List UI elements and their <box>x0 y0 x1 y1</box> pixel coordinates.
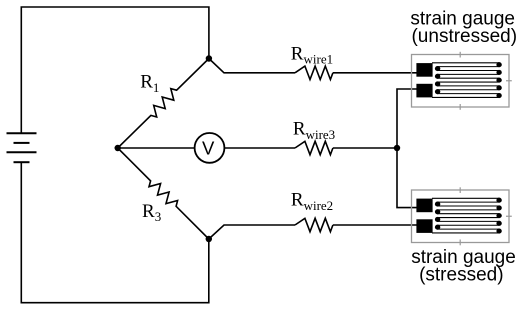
wire: middle junction down to stressed gauge pad 1 <box>397 148 418 208</box>
gauge serpentine grid lines (unstressed) <box>432 63 500 98</box>
gauge terminal pad 1 (unstressed) <box>416 63 432 77</box>
gauge alignment tick top (unstressed) <box>459 52 461 58</box>
gauge left-end turn loops (unstressed) <box>435 66 440 94</box>
battery B1 plate long <box>7 151 37 153</box>
strain gauge U1 (unstressed) <box>412 52 512 110</box>
svg-text:(stressed): (stressed) <box>419 264 503 285</box>
gauge terminal pad 2 (stressed) <box>416 219 432 233</box>
node: bridge left junction <box>115 145 121 151</box>
wire: middle junction up to unstressed gauge pad 2 <box>397 89 418 148</box>
wire: top node to Rwire1 <box>209 59 295 73</box>
node: bridge top junction <box>206 55 212 61</box>
resistor R1 (upper bridge arm, diagonal zigzag) <box>118 59 209 149</box>
battery B1 plate short <box>14 142 30 144</box>
gauge alignment tick bottom (stressed) <box>459 240 461 246</box>
gauge alignment tick top (stressed) <box>459 187 461 193</box>
svg-text:(unstressed): (unstressed) <box>411 26 517 47</box>
wire: battery positive to top-left corner, across top, down to bridge top node <box>21 7 209 133</box>
strain gauge body outline (unstressed) <box>412 55 510 108</box>
gauge alignment tick right (stressed) <box>506 215 512 217</box>
gauge terminal pad 1 (stressed) <box>416 199 432 213</box>
strain gauge U2 (stressed) <box>412 187 512 245</box>
gauge alignment tick right (unstressed) <box>506 80 512 82</box>
gauge right-end turn loops (stressed) <box>496 198 501 234</box>
gauge left-end turn loops (stressed) <box>435 202 440 230</box>
wire: bottom node to Rwire2 <box>209 225 295 239</box>
svg-text:V: V <box>202 138 215 159</box>
resistor Rwire3 zigzag <box>295 141 333 154</box>
voltmeter V (circle) <box>195 133 225 163</box>
node: middle junction at gauges <box>394 145 400 151</box>
battery B1 plate short (bottom) <box>14 161 30 163</box>
wire: left node to voltmeter <box>118 147 195 149</box>
resistor Rwire2 zigzag <box>295 218 333 231</box>
battery B1 plate long (top) <box>7 132 37 134</box>
resistor R3 (lower bridge arm, diagonal zigzag) <box>118 148 209 239</box>
gauge alignment tick bottom (unstressed) <box>459 104 461 110</box>
resistor Rwire1 zigzag <box>295 66 333 79</box>
wire: Rwire2 to stressed gauge pad 2 <box>333 224 418 226</box>
node: bridge bottom junction <box>206 236 212 242</box>
gauge serpentine grid lines (stressed) <box>432 198 500 233</box>
wire: Rwire1 to unstressed gauge pad 1 <box>333 72 418 74</box>
strain gauge body outline (stressed) <box>412 190 510 243</box>
wire: voltmeter to Rwire3 <box>224 147 295 149</box>
gauge right-end turn loops (unstressed) <box>496 62 501 98</box>
wire: battery negative down, across bottom, up to bridge bottom node <box>21 162 209 303</box>
gauge terminal pad 2 (unstressed) <box>416 84 432 98</box>
wire: Rwire3 to middle junction <box>333 147 397 149</box>
